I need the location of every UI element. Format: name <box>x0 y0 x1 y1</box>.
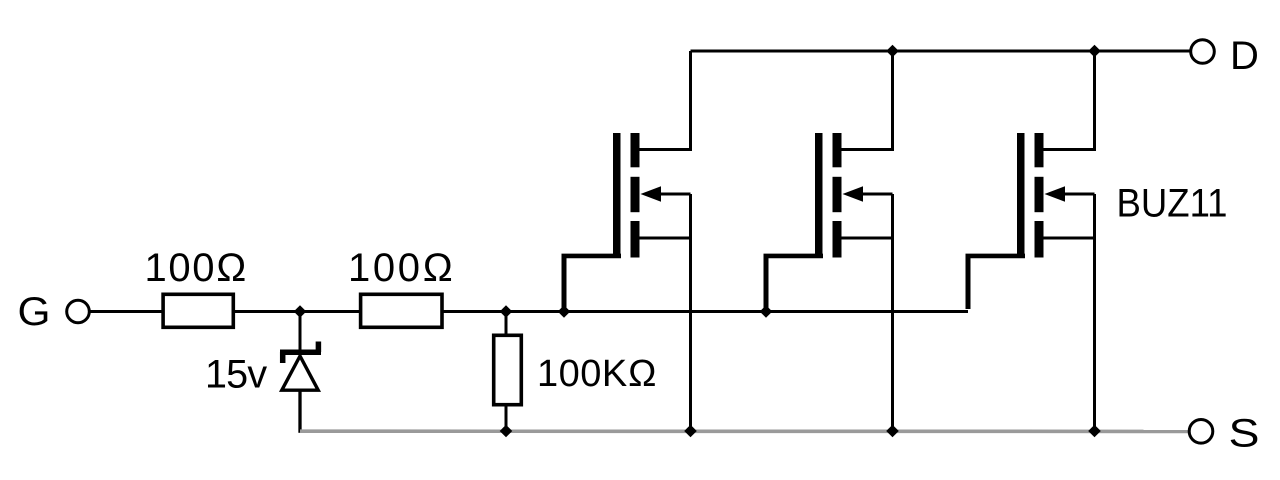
wire gate bus node E to Q3 gate riser <box>766 310 968 313</box>
zener diode D1 <box>280 342 321 391</box>
resistor R1 <box>163 294 233 327</box>
wire R2 to node B <box>444 310 507 313</box>
wire zener D1 to source rail <box>298 390 301 433</box>
wire node A to R2 <box>300 310 360 313</box>
wire R3 to source rail <box>505 406 508 433</box>
resistor R2 <box>361 294 442 327</box>
node source rail / Q2 junction <box>886 425 899 438</box>
node source rail / Q1 junction <box>684 425 697 438</box>
transistor Q3 <box>966 51 1095 433</box>
wire node A to zener D1 <box>299 312 302 352</box>
wire R1 to node A <box>235 310 300 313</box>
svg-text:BUZ11: BUZ11 <box>1117 182 1228 226</box>
node drain rail / Q3 junction <box>1088 45 1101 58</box>
wire node B to R3 <box>505 312 508 336</box>
node E junction (Q2 gate) <box>760 305 773 318</box>
svg-text:100KΩ: 100KΩ <box>537 353 657 395</box>
wire gate bus node C to node E <box>564 310 766 313</box>
node A junction <box>294 305 307 318</box>
terminal G <box>67 300 90 323</box>
terminal D <box>1191 40 1215 64</box>
node source rail / Q3 junction <box>1088 425 1101 438</box>
svg-text:D: D <box>1230 34 1259 78</box>
wire source rail (gray) <box>300 429 1189 433</box>
svg-text:S: S <box>1229 412 1260 456</box>
wire gate bus node B to node C <box>506 310 564 313</box>
svg-text:100Ω: 100Ω <box>145 246 249 290</box>
resistor R3 <box>494 335 522 404</box>
svg-text:G: G <box>18 290 51 334</box>
node B junction <box>500 305 513 318</box>
svg-text:100Ω: 100Ω <box>348 246 456 290</box>
svg-text:15v: 15v <box>205 353 267 397</box>
wire drain rail <box>691 50 1191 53</box>
wire G to R1 <box>89 310 163 313</box>
terminal S <box>1189 420 1213 444</box>
node source rail / R3 junction <box>500 425 513 438</box>
transistor Q2 <box>764 51 893 433</box>
node C junction (Q1 gate) <box>558 305 571 318</box>
node drain rail / Q2 junction <box>886 45 899 58</box>
transistor Q1 <box>562 51 691 433</box>
